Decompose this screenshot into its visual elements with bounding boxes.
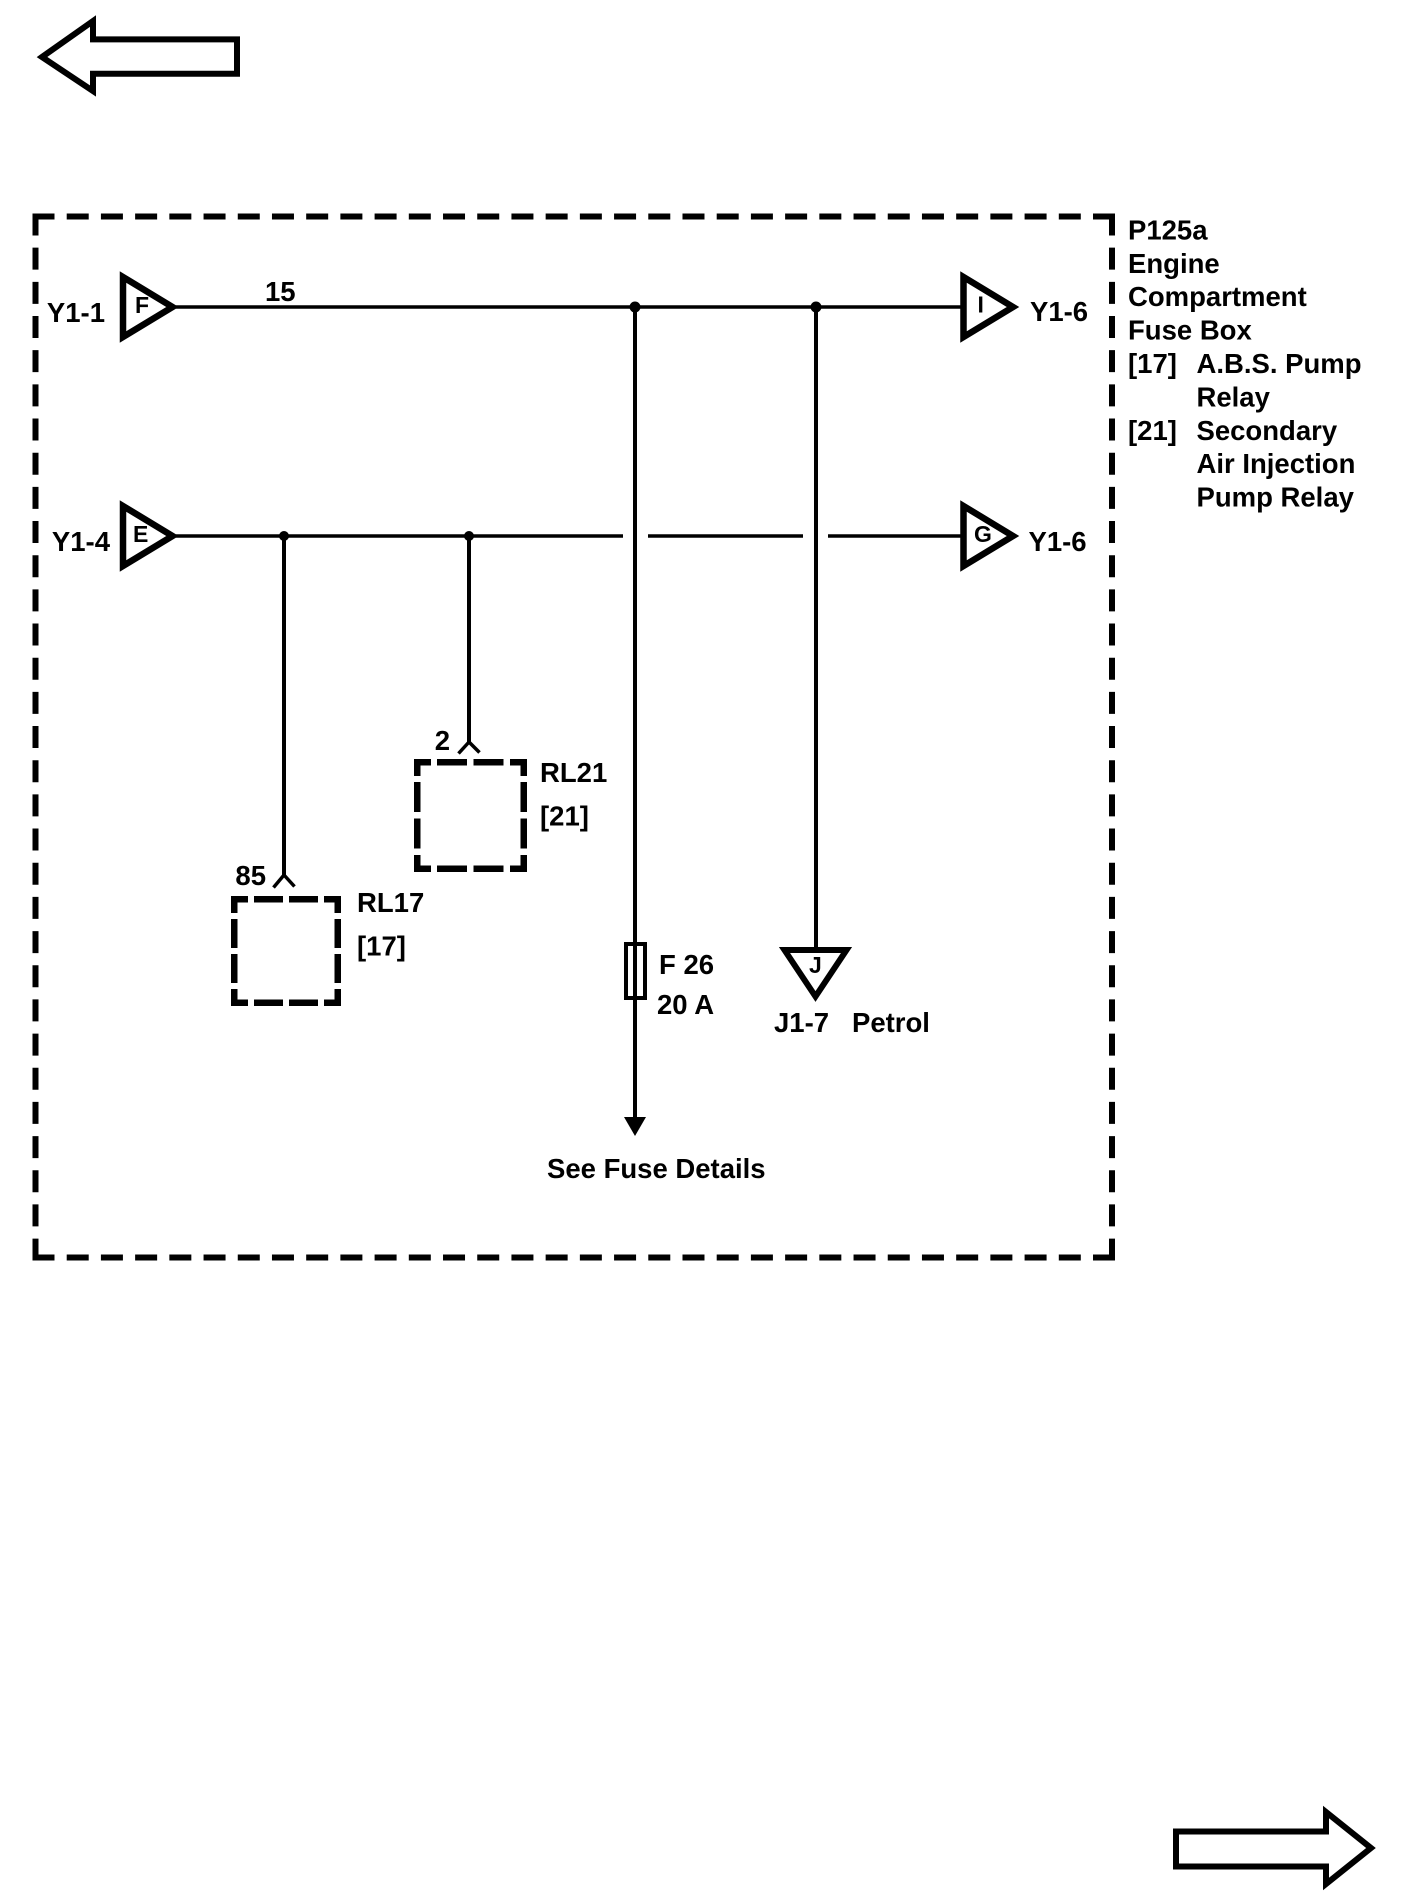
- svg-text:E: E: [133, 521, 148, 547]
- wire drop from second bus to relay RL21 pin 2: [467, 536, 471, 742]
- connector G (Y1-6): [964, 506, 1087, 566]
- svg-text:[17]: [17]: [357, 931, 406, 962]
- svg-text:I: I: [978, 292, 984, 318]
- svg-text:P125a: P125a: [1128, 214, 1208, 245]
- node junction dot on second bus at x=284: [279, 531, 289, 541]
- connector E (Y1-4): [52, 506, 173, 566]
- connector J (J1-7 Petrol): [774, 950, 930, 1038]
- svg-text:G: G: [974, 521, 992, 547]
- connector I (Y1-6): [964, 277, 1089, 337]
- svg-text:See Fuse Details: See Fuse Details: [547, 1153, 766, 1184]
- svg-text:Y1-1: Y1-1: [47, 297, 105, 328]
- connector F (Y1-1): [47, 277, 173, 337]
- fuse F26 20A: [626, 944, 645, 998]
- svg-text:Y1-4: Y1-4: [52, 526, 111, 557]
- svg-text:Y1-6: Y1-6: [1029, 526, 1087, 557]
- node junction dot on top bus at x=635: [630, 302, 641, 313]
- wire drop from top bus to fuse F26: [633, 307, 637, 1119]
- node junction dot on second bus at x=469: [464, 531, 474, 541]
- wire 15 (top bus F to I): [176, 305, 963, 308]
- wire second bus E to G (with crossover gaps): [176, 534, 963, 537]
- svg-text:[21]: [21]: [540, 801, 589, 832]
- svg-text:Engine: Engine: [1128, 248, 1220, 279]
- svg-text:Petrol: Petrol: [852, 1007, 930, 1038]
- svg-text:Air Injection: Air Injection: [1197, 448, 1356, 479]
- svg-text:85: 85: [235, 860, 266, 891]
- page nav arrow right (bottom-right): [1176, 1812, 1371, 1884]
- node junction dot on top bus at x=816: [811, 302, 822, 313]
- page nav arrow left (top-left): [42, 21, 237, 91]
- svg-text:15: 15: [265, 276, 296, 307]
- svg-text:Secondary: Secondary: [1197, 415, 1338, 446]
- svg-text:[21]: [21]: [1128, 415, 1177, 446]
- wire drop from top bus to connector J: [814, 307, 818, 950]
- svg-text:2: 2: [435, 725, 450, 756]
- relay RL21 dashed box: [414, 759, 527, 872]
- relay RL17 dashed box: [231, 896, 341, 1006]
- svg-text:F 26: F 26: [659, 949, 714, 980]
- svg-text:RL17: RL17: [357, 887, 424, 918]
- svg-text:F: F: [135, 292, 149, 318]
- svg-text:20 A: 20 A: [657, 989, 714, 1020]
- svg-text:[17]: [17]: [1128, 348, 1177, 379]
- arrowhead to fuse details: [624, 1117, 646, 1136]
- terminal fork at pin 85: [274, 875, 295, 888]
- svg-text:Compartment: Compartment: [1128, 281, 1307, 312]
- svg-text:A.B.S. Pump: A.B.S. Pump: [1197, 348, 1362, 379]
- svg-text:Relay: Relay: [1197, 381, 1271, 412]
- svg-text:RL21: RL21: [540, 757, 607, 788]
- svg-text:Pump Relay: Pump Relay: [1197, 482, 1355, 513]
- fuse box P125a dashed boundary: [33, 214, 1116, 1261]
- wire drop from second bus to relay RL17 pin 85: [282, 536, 286, 875]
- svg-text:Y1-6: Y1-6: [1030, 296, 1088, 327]
- svg-text:Fuse Box: Fuse Box: [1128, 315, 1252, 346]
- svg-text:J1-7: J1-7: [774, 1007, 829, 1038]
- svg-text:J: J: [809, 952, 822, 978]
- legend text P125a Engine Compartment Fuse Box: [1128, 214, 1362, 512]
- terminal fork at pin 2: [459, 742, 480, 754]
